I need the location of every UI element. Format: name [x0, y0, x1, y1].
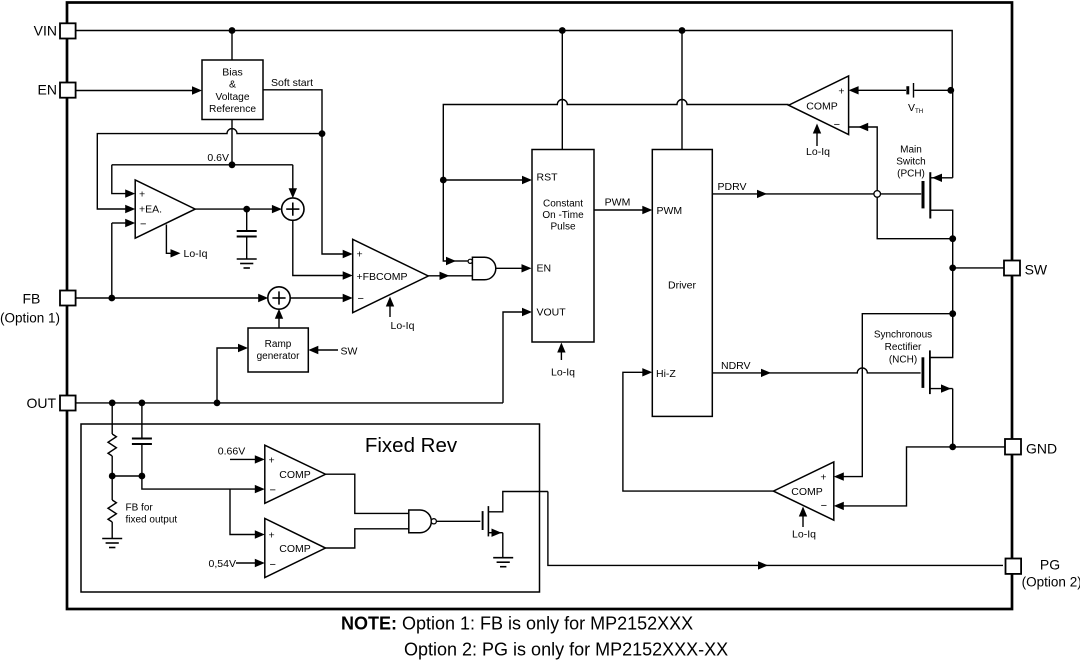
- transistor main switch PCH: [923, 172, 953, 239]
- wire summer1 to FBCOMP: [293, 220, 353, 280]
- wire FBCOMP output: [428, 272, 472, 280]
- node EA output junction: [243, 206, 250, 213]
- op-amp COMP2: [773, 462, 833, 520]
- svg-text:+: +: [269, 530, 275, 542]
- wire to GND pin: [953, 446, 1005, 448]
- svg-text:PWM: PWM: [657, 205, 683, 217]
- block ramp generator: [248, 328, 308, 372]
- svg-text:Lo-Iq: Lo-Iq: [792, 529, 816, 541]
- svg-text:COMP: COMP: [806, 100, 838, 112]
- svg-text:Lo-Iq: Lo-Iq: [184, 248, 208, 260]
- svg-text:(Option 2): (Option 2): [1022, 574, 1080, 589]
- wire EA output: [195, 205, 282, 213]
- capacitor C1: [132, 403, 152, 476]
- svg-text:COMP: COMP: [791, 486, 823, 498]
- wire battery to COMP1 plus: [849, 86, 906, 94]
- wire fixed-rev to PG: [548, 492, 1003, 570]
- wire 0.66V input: [230, 455, 265, 463]
- wire PWM: [594, 206, 652, 214]
- op-amp COMPA: [265, 445, 326, 503]
- svg-text:&: &: [229, 79, 236, 91]
- svg-text:+: +: [269, 455, 275, 467]
- wire soft start to FBCOMP plus: [322, 134, 353, 259]
- op-amp EA: [135, 180, 195, 238]
- label NDRV: [721, 360, 751, 372]
- transistor Q1 NCH: [483, 492, 548, 558]
- svg-text:0.66V: 0.66V: [218, 446, 245, 458]
- svg-text:NOTE: Option 1: FB is only for: NOTE: Option 1: FB is only for MP2152XXX: [341, 613, 693, 633]
- svg-text:(Option 1): (Option 1): [0, 311, 60, 326]
- svg-text:EN: EN: [38, 82, 57, 98]
- ground compensation cap: [237, 259, 257, 268]
- pin EN: [60, 83, 76, 98]
- wire VIN to COT box: [561, 31, 563, 150]
- svg-text:Hi-Z: Hi-Z: [656, 368, 676, 380]
- svg-text:Switch: Switch: [896, 157, 925, 168]
- wire divider tap: [142, 476, 265, 493]
- svg-text:+EA.: +EA.: [139, 203, 162, 215]
- pin FB: [60, 291, 76, 306]
- svg-text:Driver: Driver: [668, 280, 697, 292]
- svg-text:RST: RST: [537, 171, 559, 183]
- wire ramp to summer2: [275, 309, 283, 328]
- node PCH drain junction: [949, 235, 956, 242]
- wire AND output to EN: [496, 264, 532, 272]
- label GND: [1026, 440, 1057, 456]
- svg-text:generator: generator: [257, 351, 300, 362]
- op-amp COMPB: [265, 519, 326, 578]
- capacitor compensation: [237, 209, 257, 258]
- svg-text:+: +: [838, 85, 844, 97]
- summer S1: [282, 198, 304, 220]
- wire divider link: [112, 475, 142, 477]
- svg-text:PDRV: PDRV: [718, 181, 747, 193]
- svg-text:VOUT: VOUT: [537, 307, 567, 319]
- pin VIN: [60, 23, 76, 38]
- transistor sync rectifier NCH: [923, 314, 953, 447]
- label Lo-Iq COMP2: [792, 529, 816, 541]
- wire COT Lo-Iq: [557, 343, 565, 361]
- node VIN-bias junction: [229, 27, 236, 34]
- svg-text:+: +: [139, 188, 145, 200]
- resistor R1: [108, 403, 116, 476]
- label Lo-Iq EA: [184, 248, 208, 260]
- svg-text:OUT: OUT: [26, 395, 56, 411]
- svg-text:Bias: Bias: [222, 66, 242, 78]
- svg-text:+: +: [357, 249, 363, 261]
- wire VIN rail: [77, 31, 953, 91]
- svg-text:Pulse: Pulse: [550, 222, 575, 233]
- svg-text:Rectifier: Rectifier: [885, 342, 922, 353]
- label VTH: [908, 102, 923, 115]
- ground Q1: [493, 558, 513, 567]
- label Lo-Iq COMP1: [806, 146, 830, 158]
- label PWM: [605, 197, 631, 209]
- wire COMP2 to Hi-Z: [623, 368, 774, 491]
- svg-text:−: −: [358, 293, 364, 305]
- svg-text:Option 2: PG is only for MP215: Option 2: PG is only for MP2152XXX-XX: [404, 640, 728, 660]
- wire PDRV: [712, 190, 921, 198]
- svg-text:(NCH): (NCH): [889, 355, 917, 366]
- label FB: [22, 290, 40, 306]
- node RST branch junction: [440, 177, 447, 184]
- node OUT junction R: [109, 400, 116, 407]
- nand-gate U2: [409, 510, 437, 533]
- node battery junction: [947, 87, 954, 94]
- wire VIN to bias box: [231, 31, 233, 61]
- svg-text:(PCH): (PCH): [897, 169, 925, 180]
- svg-text:fixed output: fixed output: [126, 515, 178, 526]
- wire OUT to ramp: [217, 344, 248, 403]
- summer S2: [268, 287, 290, 309]
- svg-text:PWM: PWM: [605, 197, 631, 209]
- wire NDRV: [712, 368, 920, 377]
- svg-text:FB for: FB for: [126, 503, 154, 514]
- svg-text:EN: EN: [537, 263, 552, 275]
- node FB junction: [108, 295, 115, 302]
- wire 0.6V rail: [112, 164, 293, 166]
- block constant on-time pulse: [532, 150, 594, 343]
- block bias and voltage reference: [202, 60, 263, 120]
- label Option 2: [1022, 574, 1080, 589]
- label Fixed Rev: [365, 434, 458, 457]
- node SW pin junction: [949, 265, 956, 272]
- op-amp COMP1: [789, 76, 849, 135]
- wire EA Lo-Iq: [166, 225, 180, 258]
- pin GND: [1005, 439, 1021, 455]
- pin PG: [1006, 559, 1022, 574]
- node GND junction: [949, 444, 956, 451]
- wire COMP2 Lo-Iq: [799, 507, 807, 528]
- node divider junction B: [139, 473, 146, 480]
- svg-text:Constant: Constant: [543, 199, 583, 210]
- svg-text:Ramp: Ramp: [265, 339, 292, 350]
- svg-text:Voltage: Voltage: [216, 92, 250, 103]
- wire COMPA to NAND: [326, 474, 409, 513]
- svg-text:Lo-Iq: Lo-Iq: [391, 320, 415, 332]
- ground R2: [102, 539, 122, 548]
- label PDRV: [718, 181, 747, 193]
- wire GND to COMP2 minus: [834, 447, 953, 510]
- svg-text:Synchronous: Synchronous: [874, 330, 932, 341]
- label Lo-Iq FBCOMP: [391, 320, 415, 332]
- wire tap to COMPB plus: [230, 489, 265, 539]
- svg-text:−: −: [140, 218, 146, 230]
- node VIN-driver junction: [679, 27, 686, 34]
- svg-text:COMP: COMP: [279, 543, 311, 555]
- block driver: [652, 150, 712, 417]
- label SW: [1025, 261, 1048, 277]
- svg-text:+: +: [820, 471, 826, 483]
- svg-text:Reference: Reference: [209, 104, 256, 115]
- wire SW node vertical: [952, 239, 954, 354]
- label Option 1: [0, 311, 60, 326]
- svg-text:COMP: COMP: [279, 469, 311, 481]
- wire soft start: [263, 90, 322, 134]
- wire COMP1 Lo-Iq: [813, 124, 821, 147]
- wire COMPB to NAND: [326, 529, 409, 548]
- label FB for fixed output: [126, 503, 178, 526]
- label OUT: [26, 395, 56, 411]
- label Lo-Iq COT: [551, 367, 575, 379]
- node OUT junction ramp: [214, 400, 221, 407]
- block fixed rev box: [81, 424, 540, 592]
- svg-text:PG: PG: [1040, 557, 1060, 573]
- wire summer2 to FBCOMP: [290, 294, 353, 302]
- wire to SW pin: [953, 267, 1004, 269]
- wire VIN to PCH source: [952, 90, 954, 178]
- label 0.54V: [209, 558, 236, 570]
- svg-text:GND: GND: [1026, 440, 1057, 456]
- wire EN input: [77, 86, 203, 94]
- svg-text:Lo-Iq: Lo-Iq: [806, 146, 830, 158]
- svg-text:−: −: [821, 500, 827, 512]
- wire RST branch: [443, 176, 532, 184]
- svg-text:On -Time: On -Time: [542, 210, 584, 221]
- pin SW: [1004, 261, 1020, 276]
- wire SW sense to COMP2 plus: [834, 314, 953, 481]
- svg-text:0,54V: 0,54V: [209, 558, 236, 570]
- svg-text:0.6V: 0.6V: [207, 152, 229, 164]
- wire SW to ramp: [308, 346, 338, 354]
- crossover PDRV gate: [874, 191, 881, 198]
- wire 0.6V to EA plus: [112, 165, 135, 198]
- wire 0.6V to summer1: [289, 165, 297, 199]
- svg-text:Lo-Iq: Lo-Iq: [551, 367, 575, 379]
- note line 1: [341, 613, 693, 633]
- label 0.6V: [207, 152, 229, 164]
- node OUT junction C: [139, 400, 146, 407]
- label EN: [38, 82, 57, 98]
- note line 2: [404, 640, 728, 660]
- wire 0.6V vertical: [231, 120, 233, 165]
- label Soft start: [271, 77, 313, 89]
- wire FB line: [76, 294, 269, 302]
- wire VIN to driver box: [681, 31, 683, 150]
- wire COMP1 minus sense: [849, 123, 953, 239]
- svg-text:NDRV: NDRV: [721, 360, 751, 372]
- wire OUT to VOUT: [503, 308, 532, 403]
- label PG: [1040, 557, 1060, 573]
- label main switch: [896, 145, 925, 180]
- node divider junction A: [109, 473, 116, 480]
- wire NAND to Q1 gate: [436, 520, 480, 522]
- label SW ramp input: [341, 345, 358, 357]
- svg-text:SW: SW: [1025, 261, 1048, 277]
- svg-text:−: −: [834, 119, 840, 131]
- svg-text:Main: Main: [900, 145, 922, 156]
- wire 0.54V input: [236, 559, 265, 567]
- label VIN: [34, 23, 57, 39]
- svg-text:VIN: VIN: [34, 23, 57, 39]
- op-amp FBCOMP: [353, 239, 429, 312]
- battery VTH: [908, 83, 951, 98]
- node 0.6V junction: [229, 161, 236, 168]
- svg-text:−: −: [270, 559, 276, 571]
- label sync rectifier: [874, 330, 932, 366]
- pin OUT: [60, 396, 76, 411]
- label 0.66V: [218, 446, 245, 458]
- svg-text:SW: SW: [341, 345, 358, 357]
- wire FBCOMP Lo-Iq: [386, 297, 394, 318]
- svg-text:−: −: [270, 485, 276, 497]
- wire COMP to RST-AND: [443, 100, 788, 266]
- node VIN-COT junction: [559, 27, 566, 34]
- svg-text:Soft start: Soft start: [271, 77, 313, 89]
- svg-text:+FBCOMP: +FBCOMP: [357, 271, 408, 283]
- wire FB to EA minus: [112, 219, 135, 298]
- node soft start junction: [319, 130, 326, 137]
- node SW sense junction: [949, 310, 956, 317]
- wire OUT line: [76, 402, 503, 404]
- resistor R2: [108, 476, 116, 538]
- svg-text:Fixed Rev: Fixed Rev: [365, 434, 458, 457]
- svg-text:FB: FB: [22, 290, 40, 306]
- wire soft start return to EA: [97, 129, 322, 214]
- and-gate U1: [468, 257, 496, 280]
